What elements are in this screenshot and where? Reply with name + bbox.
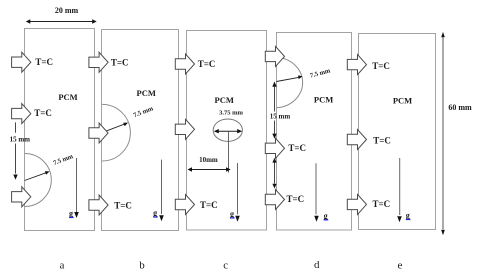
label 7.5 mm d [309,67,331,79]
svg-text:PCM: PCM [393,95,412,105]
svg-text:T=C: T=C [35,57,53,67]
label b [139,260,145,272]
label T=C C1 [198,59,216,69]
inlet arrow E3 [347,194,366,214]
svg-text:g: g [230,210,234,219]
gravity arrow a [74,158,79,218]
svg-text:PCM: PCM [215,95,234,105]
unlabeled dimension arrow d [272,158,276,189]
svg-text:PCM: PCM [58,92,77,102]
svg-text:20 mm: 20 mm [55,6,79,15]
svg-text:PCM: PCM [314,94,333,104]
circle c 3.75mm [213,119,242,141]
svg-text:T=C: T=C [288,143,306,153]
label e [398,260,403,272]
gravity arrow e [397,158,402,222]
svg-text:a: a [60,260,65,272]
label g d [324,211,329,220]
PCM label e [393,95,412,105]
label d [314,259,320,271]
label T=C C3 [200,200,218,210]
PCM label b [137,88,156,98]
inlet arrow C2 [175,119,194,139]
svg-text:g: g [69,209,73,218]
label 7.5 mm b [132,105,154,119]
label T=C E1 [372,61,390,71]
radius arrow d 7.5mm [276,75,302,81]
inlet arrow E1 [347,55,366,75]
inlet arrow C3 [175,195,194,215]
label c [223,260,228,272]
inlet arrow B1 [89,52,108,72]
dimension 15 mm a line [13,122,17,179]
container c [187,31,267,231]
svg-text:T=C: T=C [200,200,218,210]
inlet arrow D3 [265,190,284,210]
container e [359,34,436,230]
svg-text:g: g [153,209,157,218]
label T=C E3 [373,199,391,209]
PCM label a [58,92,77,102]
label T=C D3 [287,194,305,204]
inlet arrow C1 [175,54,194,74]
inlet arrow B2 [89,123,108,143]
svg-text:T=C: T=C [373,136,391,146]
label T=C B3 [114,200,132,210]
gravity arrow b [159,160,164,222]
svg-text:15 mm: 15 mm [270,113,291,121]
container b [102,30,179,231]
svg-text:10mm: 10mm [199,156,218,164]
dimension 60 mm label [448,103,472,112]
label g c [230,210,235,219]
dimension 15 mm d label [270,113,291,121]
label g b [153,209,158,218]
svg-text:e: e [398,260,403,272]
label T=C A2 [34,108,52,118]
svg-text:15 mm: 15 mm [10,136,31,144]
svg-text:T=C: T=C [111,58,129,68]
semicircle d [276,57,302,108]
svg-text:T=C: T=C [34,108,52,118]
radius arrow a 7.5mm [25,171,50,180]
diameter arrow c [214,129,242,133]
svg-text:d: d [314,259,320,271]
label T=C D2 [288,143,306,153]
gravity arrow d [314,163,319,221]
inlet arrow B3 [89,195,108,215]
dimension 15 mm a label [10,136,31,144]
dimension 15 mm d line [272,82,276,139]
inlet arrow E2 [347,130,366,150]
inlet arrow A1 [12,52,31,72]
svg-text:T=C: T=C [372,61,390,71]
svg-text:T=C: T=C [114,200,132,210]
container d [277,33,352,231]
container a [25,29,95,231]
label g e [406,211,411,220]
svg-text:b: b [139,260,145,272]
svg-text:PCM: PCM [137,88,156,98]
svg-text:g: g [324,211,328,220]
gravity arrow c [235,163,240,222]
label 3.75 mm [219,109,243,116]
dimension 20 mm arrow [26,19,97,23]
drop line from circle center [228,131,230,172]
label T=C E2 [373,136,391,146]
label 7.5 mm a [52,153,74,167]
inlet arrow D1 [265,46,284,66]
label a [60,260,65,272]
svg-text:g: g [406,211,410,220]
svg-text:T=C: T=C [198,59,216,69]
PCM label c [215,95,234,105]
svg-text:T=C: T=C [287,194,305,204]
svg-text:60 mm: 60 mm [448,103,472,112]
label 10mm [199,156,218,164]
label g a [69,209,74,218]
inlet arrow A3 [12,187,31,207]
semicircle b [102,104,130,161]
PCM label d [314,94,333,104]
radius arrow b 7.5mm [102,123,128,133]
dimension 10mm arrow [188,167,231,171]
svg-text:3.75 mm: 3.75 mm [219,109,243,116]
inlet arrow A2 [12,104,31,124]
semicircle a [25,154,52,207]
inlet arrow D2 [265,138,284,158]
dimension 20 mm label [55,6,79,15]
dimension 60 mm arrow [441,32,445,235]
svg-text:c: c [223,260,228,272]
label T=C B1 [111,58,129,68]
label T=C A1 [35,57,53,67]
svg-text:T=C: T=C [373,199,391,209]
